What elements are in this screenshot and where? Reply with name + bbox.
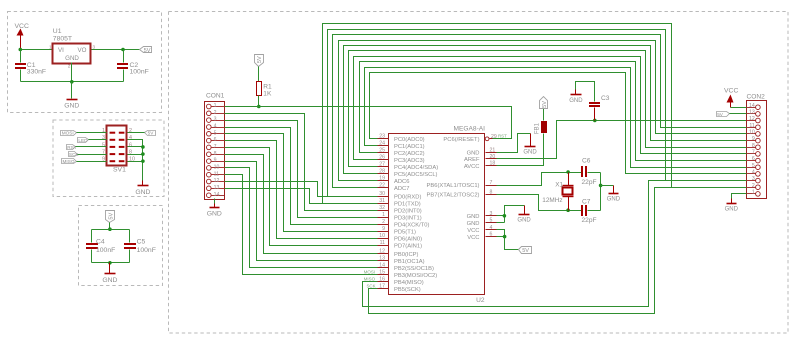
wire net PD0(RXD)/CON2.3 [328, 30, 747, 197]
svg-text:X1: X1 [555, 181, 563, 188]
U2 pin 26 PC3(ADC3) [378, 155, 425, 164]
svg-text:1: 1 [102, 128, 105, 134]
wire net PC2/CON2.6 [360, 62, 747, 161]
svg-text:GND: GND [725, 207, 739, 213]
svg-text:12MHz: 12MHz [542, 197, 562, 204]
svg-text:PB1(OC1A): PB1(OC1A) [394, 259, 425, 265]
svg-text:MISO: MISO [63, 159, 75, 164]
svg-text:C7: C7 [582, 199, 591, 206]
wire bottom rail [92, 262, 130, 264]
label flag SCK [69, 152, 80, 158]
svg-text:PD5(T1): PD5(T1) [394, 229, 416, 235]
svg-text:VO: VO [78, 47, 87, 54]
U2 pin 18 AVCC [464, 161, 497, 170]
svg-text:20: 20 [490, 154, 496, 160]
U2 pin 14 PB2(SS/OC1B) [378, 263, 435, 272]
svg-text:7805T: 7805T [53, 35, 72, 42]
wire XTAL2 (pin8) to crystal / C7 [497, 195, 582, 211]
svg-text:10: 10 [379, 233, 385, 239]
wire CON1.2 to U2 [225, 114, 378, 211]
svg-text:4: 4 [752, 170, 755, 176]
svg-text:5: 5 [752, 163, 755, 169]
U2 pin 24 PC1(ADC1) [378, 141, 425, 150]
svg-text:15: 15 [379, 270, 385, 276]
wire CON1.7 to U2 [225, 148, 378, 246]
U2 pin 30 PD0(RXD) [378, 191, 422, 200]
CON2 pin 12 [747, 116, 761, 123]
wire R1 to RST net [258, 96, 260, 107]
svg-text:PD0(RXD): PD0(RXD) [394, 194, 421, 200]
svg-text:1: 1 [382, 212, 385, 218]
svg-text:PB7(XTAL2/TOSC2): PB7(XTAL2/TOSC2) [427, 193, 480, 199]
svg-text:3: 3 [214, 117, 217, 123]
label flag RST [67, 145, 77, 150]
svg-text:14: 14 [379, 263, 385, 269]
CON2 pin 14 [747, 103, 761, 110]
wire chip GND pins 3,5 [497, 206, 525, 223]
svg-text:7: 7 [214, 144, 217, 150]
U2 pin 31 PD1(TXD) [378, 198, 421, 207]
CON1 pin 2 [207, 110, 225, 116]
label flag MOSI [61, 131, 77, 136]
svg-text:18: 18 [490, 161, 496, 167]
capacitor C4 100nF [86, 230, 115, 263]
svg-text:17: 17 [379, 284, 385, 290]
ground GND (SV1) [142, 181, 144, 186]
svg-text:RST: RST [67, 145, 77, 150]
wire CON1.10 to U2 [225, 168, 378, 268]
CON1 pin 3 [207, 117, 225, 123]
wire SCK net: U2 pin17 bottom route to CON2.2 [369, 188, 747, 314]
wire net PC4/CON2.8 [349, 51, 747, 167]
node junction crystal cap rail [599, 184, 603, 188]
U2 pin 13 PB1(OC1A) [378, 256, 425, 265]
CON2 pin 7 [747, 150, 761, 157]
U2 pin 28 PC5(ADC5/SCL) [378, 169, 438, 178]
svg-text:6: 6 [490, 232, 493, 238]
svg-text:3: 3 [752, 176, 755, 182]
svg-text:PD2(INT0): PD2(INT0) [394, 208, 422, 214]
svg-text:5V: 5V [717, 112, 724, 117]
wire CON1.13 to U2 PD1 [225, 189, 378, 204]
wire net PC0/CON2.4 [370, 73, 747, 174]
svg-text:8: 8 [214, 151, 217, 157]
supply VCC [15, 23, 29, 50]
wire MISO to SV1 [77, 161, 107, 163]
connector CON1 [205, 93, 225, 200]
svg-text:2: 2 [214, 110, 217, 116]
wire FB1 to 5V [543, 109, 545, 121]
wire CON1.9 to U2 [225, 162, 378, 261]
svg-text:11: 11 [214, 171, 219, 177]
U2 pin 3 GND [467, 211, 497, 220]
svg-text:VCC: VCC [15, 23, 29, 30]
svg-text:26: 26 [379, 155, 385, 161]
svg-text:GND: GND [102, 277, 117, 284]
svg-text:16: 16 [379, 277, 385, 283]
svg-text:100nF: 100nF [96, 247, 115, 254]
wire C6/C7 right rail [600, 173, 602, 211]
resistor R1 1K [257, 82, 273, 98]
CON1 pin 1 [207, 103, 225, 109]
svg-text:5V: 5V [144, 48, 151, 54]
CON2 pin 11 [747, 123, 761, 130]
U2 pin 20 AREF [464, 154, 496, 163]
svg-text:PB3(MOSI/OC2): PB3(MOSI/OC2) [394, 273, 437, 279]
wire RST to SV1 [76, 146, 107, 148]
svg-text:MOSI: MOSI [62, 131, 74, 136]
svg-text:5V: 5V [257, 56, 263, 63]
svg-text:PC2(ADC2): PC2(ADC2) [394, 151, 425, 157]
node junction VCC/C1 [19, 48, 23, 52]
svg-text:VCC: VCC [467, 228, 479, 234]
svg-text:PB6(XTAL1/TOSC1): PB6(XTAL1/TOSC1) [427, 183, 480, 189]
svg-text:9: 9 [382, 226, 385, 232]
svg-text:GND: GND [64, 103, 79, 110]
wire SCK to SV1 [78, 154, 107, 156]
svg-text:4: 4 [129, 135, 132, 141]
svg-text:32: 32 [379, 205, 385, 211]
svg-text:19: 19 [379, 176, 385, 182]
svg-text:27: 27 [379, 162, 385, 168]
svg-text:100nF: 100nF [137, 247, 156, 254]
wire 5V down to rail [109, 223, 111, 230]
SV1 pads left column [110, 132, 116, 163]
label flag 5V at CON2 pin13 [717, 112, 730, 117]
U2 pin 6 VCC [467, 232, 496, 241]
CON2 pin 9 [747, 136, 761, 143]
ground GND (CON1) [207, 199, 222, 218]
svg-text:GND: GND [207, 211, 222, 218]
svg-text:GND: GND [523, 150, 537, 156]
svg-text:U1: U1 [53, 28, 62, 35]
svg-text:MEGA8-AI: MEGA8-AI [453, 126, 485, 133]
wire SV1 pins 4,6,8,10 to GND bus [128, 140, 143, 181]
node junction C3/AREF [593, 119, 597, 123]
svg-text:21: 21 [490, 147, 496, 153]
U2 pin 4 VCC [467, 225, 496, 234]
wire net PD1(TXD)/CON2.2 [323, 24, 747, 204]
svg-text:11: 11 [749, 123, 754, 129]
svg-text:1: 1 [49, 44, 52, 49]
svg-text:8: 8 [490, 189, 493, 195]
node junction X1 bottom [566, 208, 570, 212]
svg-text:1: 1 [752, 190, 755, 196]
svg-text:12: 12 [379, 249, 385, 255]
svg-text:C3: C3 [601, 95, 610, 102]
svg-text:LED: LED [78, 138, 88, 143]
svg-text:6: 6 [752, 156, 755, 162]
node junctions SV1 GND bus [141, 145, 145, 149]
CON1 pin 8 [207, 151, 225, 157]
CON2 pin 13 [747, 110, 761, 117]
wire MISO net: U2 pin16 bottom route to CON2.3 [363, 181, 747, 307]
svg-text:MISO: MISO [364, 277, 376, 282]
svg-text:PB5(SCK): PB5(SCK) [394, 287, 421, 293]
wire SV1 pin2 to 5V [128, 132, 145, 134]
ground GND (power module) [64, 82, 79, 110]
voltage regulator U1 7805T [49, 28, 96, 69]
CON1 pin 9 [207, 158, 225, 164]
wire RST net: CON1.1 - R1 - U2 pin29 [225, 107, 512, 139]
SV1 pads right column [119, 132, 125, 163]
svg-text:GND: GND [467, 221, 480, 227]
svg-text:FB1: FB1 [535, 122, 541, 134]
CON2 pin 6 [747, 156, 761, 163]
CON1 pin 7 [207, 144, 225, 150]
supply flag 5V (power out) [140, 47, 152, 55]
svg-text:GND: GND [467, 151, 480, 157]
wire U1 VO to 5V [92, 49, 140, 51]
svg-text:SCK: SCK [366, 284, 375, 289]
label flag 5V at SV1 pin2 [145, 131, 156, 136]
svg-text:2: 2 [129, 128, 132, 134]
wire net ADC6/CON2.10 [339, 41, 747, 181]
supply flag 5V (AVCC) [540, 97, 548, 109]
wire net PC1/CON2.5 [365, 68, 747, 168]
wire CON2 pin1 to GND [732, 194, 747, 199]
wire CON1.11 to U2 [225, 175, 378, 275]
ground GND (C4C5) [109, 263, 111, 274]
U2 pin 27 PC4(ADC4/SDA) [378, 162, 439, 171]
ground GND (pins 3,5) [524, 206, 526, 215]
connector SV1 [107, 126, 127, 174]
svg-text:5V: 5V [108, 212, 114, 219]
svg-text:GND: GND [135, 189, 150, 196]
svg-text:14: 14 [749, 103, 755, 109]
U2 pin 23 PC0(ADC0) [378, 134, 425, 143]
svg-text:3: 3 [490, 211, 493, 217]
U2 pin 11 PD7(AIN1) [378, 240, 423, 249]
svg-text:PD1(TXD): PD1(TXD) [394, 201, 421, 207]
svg-text:4: 4 [214, 124, 217, 130]
svg-text:1: 1 [214, 103, 217, 109]
svg-text:9: 9 [752, 136, 755, 142]
svg-text:9: 9 [214, 158, 217, 164]
CON1 pin 11 [207, 171, 225, 177]
CON1 pin 14 [207, 192, 225, 198]
svg-text:PC5(ADC5/SCL): PC5(ADC5/SCL) [394, 172, 438, 178]
CON1 pin 13 [207, 185, 225, 191]
svg-text:22pF: 22pF [582, 179, 597, 186]
supply VCC (CON2) [724, 88, 738, 108]
svg-text:PC1(ADC1): PC1(ADC1) [394, 144, 425, 150]
svg-text:CON1: CON1 [206, 93, 225, 100]
svg-text:11: 11 [380, 240, 385, 246]
svg-text:2: 2 [382, 219, 385, 225]
svg-text:13: 13 [379, 256, 385, 262]
svg-text:C6: C6 [582, 157, 591, 164]
svg-text:5V: 5V [148, 131, 155, 136]
connector CON2 [747, 93, 767, 198]
CON2 pin 5 [747, 163, 761, 170]
capacitor C6 22pF [581, 157, 601, 185]
wire bottom rail C1-C2 [21, 81, 124, 83]
svg-text:13: 13 [214, 185, 220, 191]
svg-text:24: 24 [379, 141, 385, 147]
wire VCC to U1 VI [21, 49, 53, 51]
node junction bottom rail [108, 261, 112, 265]
U2 pin 16 PB4(MISO) [378, 277, 424, 286]
capacitor C1 330nF [15, 50, 46, 82]
svg-text:AVCC: AVCC [464, 164, 480, 170]
svg-text:31: 31 [379, 198, 385, 204]
svg-text:CON2: CON2 [747, 93, 766, 100]
svg-text:5V: 5V [522, 248, 529, 254]
wire VCC to CON2 pin14 [731, 107, 747, 109]
CON2 pin 3 [747, 176, 761, 183]
crystal X1 12MHz [542, 173, 573, 211]
wire pin21 GND [497, 134, 531, 153]
capacitor C5 100nF [124, 230, 156, 263]
node junction VO/C2 [121, 48, 125, 52]
node junction R1/CON1.1 [257, 105, 261, 109]
U2 pin 1 PD3(INT1) [378, 212, 422, 221]
CON2 pin 8 [747, 143, 761, 150]
svg-text:RST: RST [498, 134, 507, 139]
U2 pin 15 PB3(MOSI/OC2) [378, 270, 438, 279]
svg-text:330nF: 330nF [27, 68, 46, 75]
svg-text:13: 13 [749, 110, 755, 116]
ground GND (CON2) [731, 199, 733, 204]
wire net ADC7/CON2.11 [333, 35, 747, 188]
svg-text:MOSI: MOSI [364, 270, 375, 275]
U2 pin 12 PB0(ICP) [378, 249, 419, 258]
svg-text:5: 5 [102, 142, 105, 148]
svg-text:PC6(/RESET): PC6(/RESET) [443, 137, 479, 143]
wire chip VCC pins 4,6 to 5V [497, 230, 519, 250]
U2 pin 10 PD6(AIN0) [378, 233, 423, 242]
wire top rail [92, 229, 130, 231]
svg-text:4: 4 [490, 225, 493, 231]
CON1 pin 10 [207, 165, 225, 171]
svg-text:6: 6 [214, 137, 217, 143]
svg-text:VCC: VCC [724, 88, 738, 95]
node junction X1 top [566, 170, 570, 174]
svg-text:C4: C4 [96, 238, 105, 245]
svg-text:5V: 5V [542, 101, 548, 108]
svg-text:PC0(ADC0): PC0(ADC0) [394, 137, 425, 143]
svg-text:C5: C5 [137, 238, 146, 245]
svg-text:PD7(AIN1): PD7(AIN1) [394, 243, 422, 249]
svg-text:PC4(ADC4/SDA): PC4(ADC4/SDA) [394, 165, 438, 171]
svg-text:SV1: SV1 [113, 166, 126, 173]
U2 pin 5 GND [467, 218, 497, 227]
svg-text:GND: GND [517, 218, 531, 224]
svg-text:12: 12 [214, 178, 220, 184]
svg-text:12: 12 [749, 116, 755, 122]
CON1 pin 4 [207, 124, 225, 130]
svg-text:3: 3 [93, 44, 96, 49]
wire C3 top to GND [576, 82, 595, 102]
svg-text:PC3(ADC3): PC3(ADC3) [394, 158, 425, 164]
ground GND (C3) [575, 90, 577, 95]
label flag MISO [62, 159, 77, 165]
svg-text:AREF: AREF [464, 157, 480, 163]
label flag LED [78, 138, 89, 143]
ferrite bead FB1 [535, 121, 547, 134]
svg-text:VCC: VCC [467, 235, 479, 241]
svg-text:100nF: 100nF [130, 68, 149, 75]
svg-text:ADC7: ADC7 [394, 186, 409, 192]
svg-text:ADC6: ADC6 [394, 179, 409, 185]
CON2 pin 4 [747, 170, 761, 177]
svg-text:10: 10 [214, 165, 220, 171]
svg-text:14: 14 [214, 192, 220, 198]
svg-text:8: 8 [752, 143, 755, 149]
wire CON1.6 to U2 [225, 141, 378, 239]
svg-text:1K: 1K [263, 90, 272, 97]
svg-text:U2: U2 [476, 297, 485, 304]
SV1 pin numbers [102, 128, 135, 163]
supply flag 5V (R1) [255, 55, 264, 67]
CON1 pin 5 [207, 130, 225, 136]
U2 pin 19 ADC6 [378, 176, 410, 185]
wire LED to SV1 [89, 139, 107, 141]
capacitor C7 22pF [581, 199, 601, 224]
CON1 pin 6 [207, 137, 225, 143]
U2 pin 21 GND [467, 147, 497, 156]
svg-text:GND: GND [65, 55, 79, 62]
svg-text:5: 5 [214, 130, 217, 136]
ic U2 MEGA8-AI body [389, 126, 486, 304]
svg-text:PB2(SS/OC1B): PB2(SS/OC1B) [394, 266, 434, 272]
svg-text:22pF: 22pF [582, 217, 597, 224]
svg-text:10: 10 [749, 130, 755, 136]
ground GND (crystal) [613, 186, 615, 194]
svg-text:PB4(MISO): PB4(MISO) [394, 280, 424, 286]
node junction GND rail [70, 80, 74, 84]
wire 5V to R1 [258, 67, 260, 82]
U2 pin 8 PB7(XTAL2/TOSC2) [427, 189, 497, 198]
U2 pin 7 PB6(XTAL1/TOSC1) [427, 180, 497, 189]
wire rail to GND [601, 185, 614, 187]
svg-text:6: 6 [129, 142, 132, 148]
U2 pin 9 PD5(T1) [378, 226, 416, 235]
node junction VCC pins [503, 235, 507, 239]
svg-text:2: 2 [752, 183, 755, 189]
svg-text:28: 28 [379, 169, 385, 175]
capacitor C3 [589, 95, 610, 120]
svg-text:PD3(INT1): PD3(INT1) [394, 215, 422, 221]
svg-text:25: 25 [379, 148, 385, 154]
wire net PC5/CON2.9 [344, 46, 747, 174]
wire CON1.8 to U2 [225, 155, 378, 254]
wire net PC3/CON2.7 [354, 57, 747, 160]
wire CON1.4 to U2 [225, 128, 378, 225]
wire CON1.3 to U2 [225, 121, 378, 218]
svg-text:7: 7 [752, 150, 755, 156]
node junction GND pins [503, 214, 507, 218]
svg-text:22: 22 [379, 183, 385, 189]
node junction top rail [108, 227, 112, 231]
wire AVCC to FB1 [497, 134, 544, 166]
wire MOSI to SV1 [77, 132, 107, 134]
U2 pin 22 ADC7 [378, 183, 410, 192]
svg-text:5: 5 [490, 218, 493, 224]
svg-text:PD6(AIN0): PD6(AIN0) [394, 236, 422, 242]
U2 pin 17 PB5(SCK) [378, 284, 421, 293]
wire CON1.5 to U2 [225, 134, 378, 232]
CON2 pin 1 [747, 190, 761, 197]
supply flag 5V (VCC pins) [519, 247, 532, 255]
CON1 pin 12 [207, 178, 225, 184]
svg-text:VI: VI [58, 47, 64, 54]
CON2 pin 10 [747, 130, 761, 137]
ground GND (pin 21) [530, 134, 532, 147]
svg-text:23: 23 [379, 134, 385, 140]
U2 pin 29 PC6(/RESET) with bubble [443, 134, 496, 143]
